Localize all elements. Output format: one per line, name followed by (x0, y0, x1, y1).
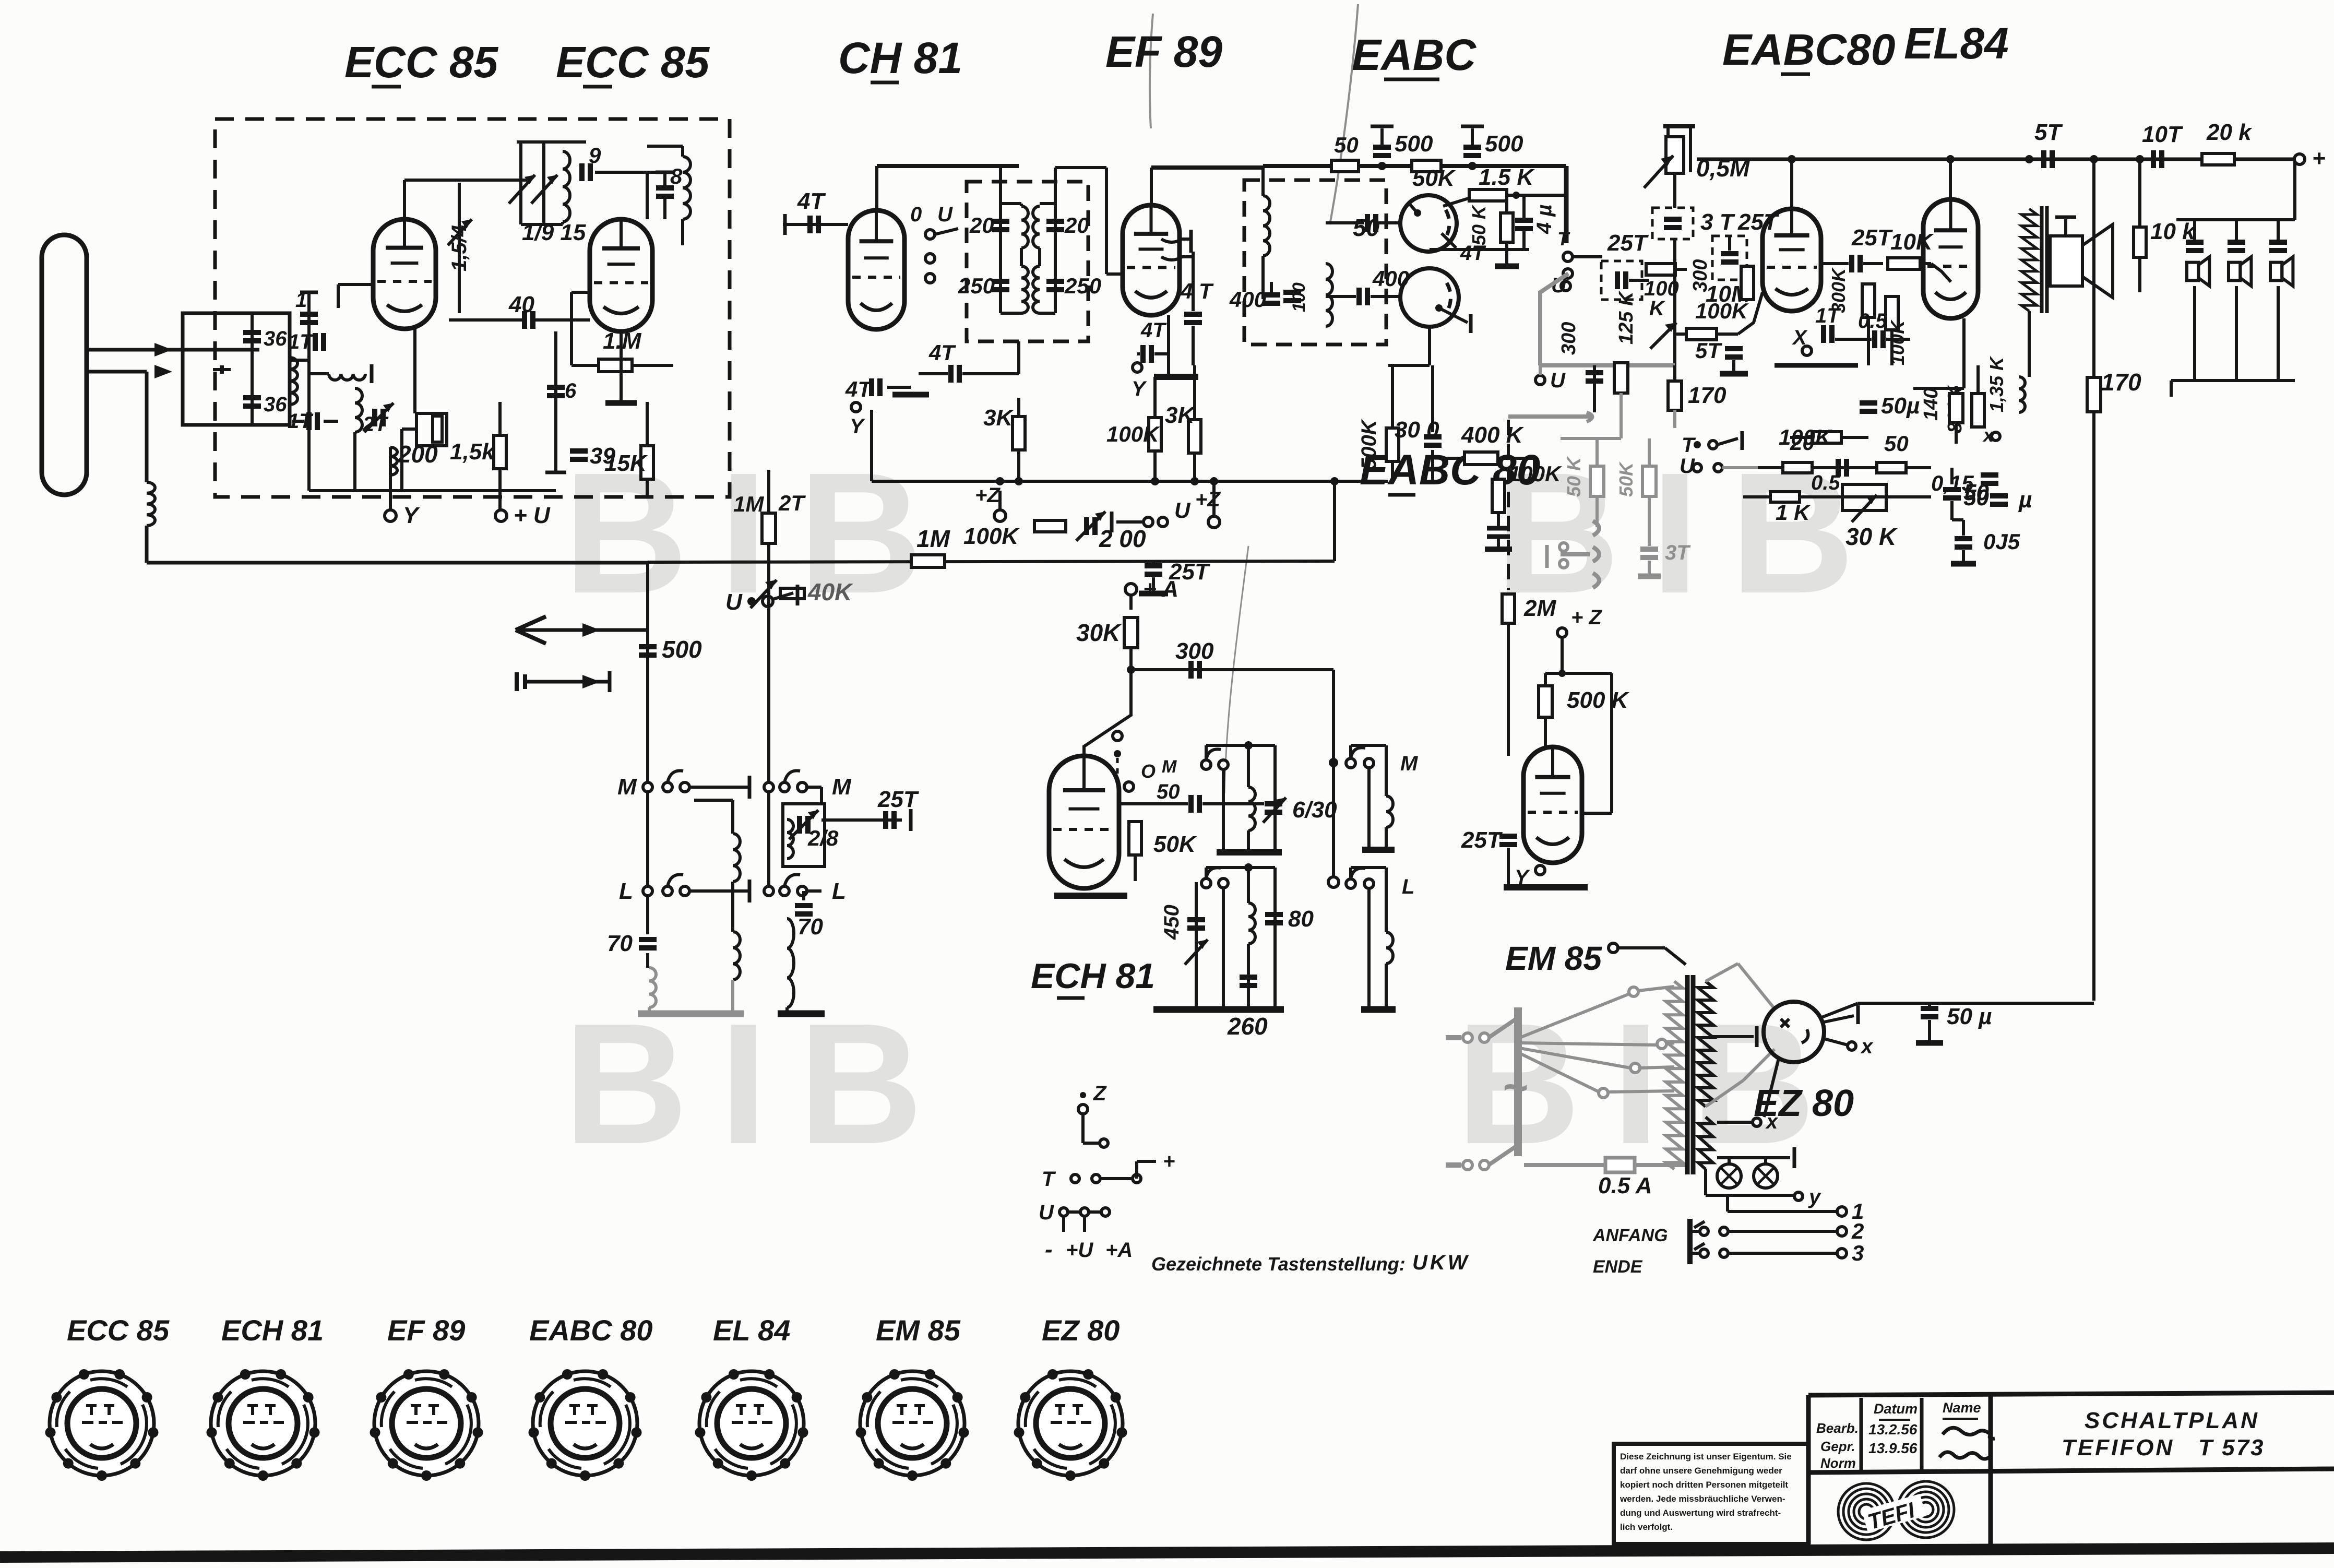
svg-text:ECH 81: ECH 81 (221, 1314, 324, 1347)
capacitor 0,15 low (1981, 472, 1998, 478)
coil below 2/8 (787, 819, 793, 859)
svg-text:500: 500 (1395, 131, 1433, 157)
svg-text:1T: 1T (1815, 304, 1841, 327)
group B top wire (1206, 866, 1275, 869)
coil to Y terminal (389, 447, 392, 491)
oscillator coil L6 (683, 157, 690, 219)
svg-text:100K: 100K (963, 524, 1020, 549)
circle O (1124, 782, 1134, 791)
svg-text:2M: 2M (1523, 596, 1556, 621)
tube V4 EF89 (1123, 205, 1180, 315)
capacitor 25T EM85 (1499, 834, 1517, 839)
resistor 40K (780, 588, 804, 599)
wire (353, 432, 356, 491)
capacitor 8 (656, 185, 674, 191)
resistor 1K (1770, 492, 1800, 502)
svg-text:500: 500 (1485, 131, 1523, 157)
capacitor 4T at V4 (1192, 252, 1195, 311)
svg-text:kopiert noch dritten Personen: kopiert noch dritten Personen mitgeteilt (1620, 1480, 1788, 1490)
svg-text:T: T (1557, 228, 1570, 250)
svg-text:25T: 25T (1737, 209, 1779, 235)
socket diagram EZ 80 (1018, 1371, 1123, 1476)
svg-text:6/30: 6/30 (1292, 797, 1337, 823)
svg-text:+: + (1163, 1150, 1175, 1173)
resistor 1M (911, 555, 945, 567)
scan crease top left of EF89 (1150, 14, 1153, 128)
svg-text:EL84: EL84 (1904, 19, 2009, 68)
resistor 100K lower (1812, 432, 1841, 443)
antenna dipole element (42, 235, 87, 495)
resistor 30K (1129, 595, 1133, 610)
group L coil (1385, 868, 1388, 932)
coil left mid upper (731, 800, 734, 834)
EM85 top terminal (1609, 943, 1618, 953)
svg-text:O: O (1141, 761, 1156, 782)
supply rail y318 left (877, 164, 1019, 168)
svg-text:M: M (617, 774, 637, 800)
svg-text:x: x (1860, 1035, 1874, 1058)
socket diagram EL 84 (699, 1371, 804, 1476)
svg-text:EZ 80: EZ 80 (1042, 1314, 1120, 1347)
capacitor 300 tone (1593, 365, 1596, 412)
disclaimer text box (1614, 1444, 1808, 1544)
svg-text:50: 50 (1884, 431, 1909, 456)
svg-text:25T: 25T (877, 787, 919, 812)
capacitor 300 series (1424, 434, 1442, 439)
svg-text:Z: Z (1093, 1082, 1107, 1105)
group B left vertical (1222, 888, 1225, 1006)
terminal U pair left (1561, 281, 1570, 291)
svg-text:13.9.56: 13.9.56 (1868, 1440, 1918, 1456)
title block outer top line (1808, 1393, 2334, 1395)
wire EZ80 to x heater (1764, 1059, 1779, 1117)
capacitor 4T at V3 cathode (869, 378, 874, 396)
resistor 300K (1741, 266, 1754, 300)
wire tone row 2 (1743, 495, 1931, 498)
group B coil (1247, 868, 1250, 903)
capacitor 1T at V5 (1821, 325, 1826, 343)
svg-text:T: T (1042, 1168, 1056, 1191)
terminal Y (385, 510, 396, 521)
resistor 2M (1502, 594, 1515, 623)
capacitor 25T dashed at rail (1712, 236, 1747, 280)
wire T2 prim top to rail (1021, 166, 1022, 204)
svg-text:EABC80: EABC80 (1722, 25, 1895, 74)
wire detector output down (1428, 327, 1431, 365)
resistor 1,35K (2019, 377, 2025, 412)
wire V1 grid left (338, 283, 373, 286)
svg-text:70: 70 (607, 931, 633, 956)
wire EZ80 cathode B+ (1820, 1003, 1858, 1018)
capacitor 1 (300, 312, 318, 317)
svg-text:+A: +A (1105, 1239, 1133, 1262)
capacitor 39 (570, 448, 588, 454)
resistor 170 right (2087, 377, 2101, 412)
svg-text:250: 250 (1064, 274, 1101, 298)
svg-text:70: 70 (797, 914, 823, 940)
antenna coil L1 (147, 482, 155, 526)
group M coil (1385, 745, 1388, 796)
svg-text:ANFANG: ANFANG (1592, 1226, 1668, 1245)
diode circle D1 (EABC80) (1400, 195, 1457, 252)
mains lower lead (1446, 1162, 1461, 1168)
svg-text:CH 81: CH 81 (838, 33, 962, 82)
capacitor 50/µ (1990, 493, 2008, 498)
capacitor 20 (T2 prim) (992, 219, 1009, 224)
svg-text:Datum: Datum (1874, 1401, 1918, 1417)
switch line 3 (1700, 1249, 1708, 1257)
svg-text:3: 3 (1852, 1241, 1864, 1265)
svg-text:4T: 4T (797, 188, 826, 214)
svg-text:4T: 4T (928, 340, 956, 365)
capacitor 500 bypass left (1373, 145, 1391, 150)
AF line wire y1075 (648, 561, 1335, 562)
svg-text:1,5/4: 1,5/4 (448, 225, 471, 271)
title block divider vertical (logo/title) (1988, 1395, 1993, 1544)
wire cathode down (413, 329, 416, 413)
socket diagram EM 85 (860, 1371, 964, 1476)
svg-text:100: 100 (1289, 282, 1309, 312)
V5 bottom bus (1775, 363, 1858, 368)
svg-text:T 573: T 573 (2198, 1435, 2265, 1460)
switch line 2 (1700, 1227, 1708, 1236)
svg-text:25T: 25T (1851, 225, 1893, 251)
svg-text:1.5 K: 1.5 K (1479, 164, 1535, 190)
V4 bottom bus (1154, 374, 1198, 380)
svg-text:4T: 4T (845, 377, 873, 401)
scan crease top middle (1330, 4, 1358, 224)
svg-text:+ U: + U (514, 503, 551, 528)
capacitor 4T below V4 (1140, 345, 1146, 363)
trimmer box 2T (767, 470, 770, 513)
group L bottom bar (1361, 1006, 1396, 1013)
svg-text:6: 6 (565, 379, 577, 402)
IF transformer T3 dashed box (1244, 180, 1386, 345)
svg-text:Name: Name (1943, 1400, 1981, 1416)
terminal U pair (1122, 514, 1123, 527)
title block header row dividers (1860, 1398, 1863, 1472)
resistor 100K (V4 screen) (1149, 418, 1161, 451)
socket diagram ECC 85 (50, 1371, 154, 1476)
wire V1 plate to tank (403, 180, 406, 219)
svg-text:10K: 10K (1890, 229, 1934, 255)
fuse 0.5A (1524, 1163, 1605, 1167)
socket diagram EF 89 (374, 1371, 479, 1476)
wire M row to 25T (821, 818, 902, 822)
tube V7 EM85 (1523, 747, 1582, 863)
wire grid loop bottom (309, 489, 556, 492)
capacitor 50 vert (1943, 487, 1961, 492)
svg-text:10 k: 10 k (2150, 219, 2196, 244)
wire D1 to 1.5K node (1443, 195, 1479, 206)
power transformer core (1685, 975, 1690, 1174)
svg-text:+: + (2312, 146, 2326, 171)
terminal + HT (2294, 154, 2305, 164)
power transformer secondary HT (1698, 981, 1713, 1107)
svg-text:500 K: 500 K (1567, 687, 1630, 713)
svg-text:30K: 30K (1076, 619, 1122, 646)
resistor 3K (V3) (1013, 417, 1025, 450)
speaker sub rail (2176, 218, 2295, 221)
svg-text:15K: 15K (604, 450, 648, 476)
EM85 feedback loop (1562, 672, 1612, 675)
svg-text:50 K: 50 K (1563, 456, 1585, 497)
trimmer 2T (372, 409, 377, 426)
svg-text:140: 140 (1920, 388, 1942, 421)
discriminator coil L4 (355, 388, 362, 432)
svg-text:~: ~ (1502, 1063, 1528, 1112)
svg-text:0.5: 0.5 (1811, 471, 1840, 494)
V4 screen lower tap (1161, 257, 1182, 260)
svg-text:L: L (832, 878, 846, 904)
svg-text:+Z: +Z (975, 484, 1001, 507)
potentiometer 30K (1842, 484, 1886, 510)
svg-text:y: y (1808, 1185, 1821, 1208)
svg-text:50K: 50K (1412, 165, 1456, 191)
trimmer 6/30 (1265, 801, 1282, 806)
svg-text:K: K (1649, 297, 1666, 320)
gray jack hooks (1508, 414, 1591, 419)
svg-text:ECC 85: ECC 85 (556, 38, 710, 87)
capacitor 9 (579, 163, 585, 181)
resistor 100K vert (1886, 296, 1898, 330)
wire V6 plate to rail (1949, 159, 1952, 199)
resistor 200 cathode (416, 413, 447, 446)
group A left vertical (1222, 769, 1225, 850)
coupling coil L2 (290, 358, 297, 405)
svg-text:20: 20 (1064, 213, 1089, 237)
coil left mid lower (731, 891, 734, 932)
resistor 50K gray 2 (1642, 466, 1656, 496)
capacitor 250 (T2 prim) (992, 279, 1009, 284)
svg-text:2/8: 2/8 (807, 826, 839, 850)
group M bottom bar (1362, 847, 1395, 853)
capacitor 70 right (802, 891, 805, 900)
tuner coil L5 (563, 151, 570, 222)
svg-text:+ Z: + Z (1571, 606, 1602, 629)
wire antenna upper lead (85, 348, 259, 352)
capacitor 70 on bus1 (639, 937, 657, 942)
capacitor 5T rail (2041, 150, 2046, 168)
capacitor 0,15 gnd (1955, 536, 1972, 541)
terminal x heater (1717, 1121, 1752, 1124)
svg-text:20: 20 (1790, 430, 1815, 455)
IF transformer T2 dashed box (967, 182, 1088, 341)
T3 primary coil (1263, 196, 1270, 256)
svg-text:40K: 40K (807, 578, 853, 605)
main HT rail top right (1697, 158, 2296, 161)
svg-text:50 K: 50 K (1468, 204, 1490, 245)
capacitor 50u cathode (1860, 400, 1877, 406)
T2 secondary coil (1033, 206, 1040, 248)
svg-text:3 T: 3 T (1700, 209, 1735, 235)
resistor 170 tone (1668, 381, 1682, 410)
socket diagram ECH 81 (211, 1371, 315, 1476)
resistor 100K agc (1034, 520, 1066, 532)
svg-text:EM 85: EM 85 (876, 1314, 961, 1347)
pot line down (1673, 173, 1676, 208)
svg-text:EL 84: EL 84 (713, 1314, 790, 1347)
coupling capacitor 25T V5-V6 (1849, 255, 1854, 272)
svg-text:+Z: +Z (1195, 488, 1221, 511)
rectifier connections fan (1706, 964, 1738, 981)
switch line 1 (1728, 1210, 1837, 1213)
wire V4 plate up and right (1150, 168, 1153, 205)
tube V8 ECH81 (1049, 756, 1119, 888)
tube V1 ECC85 triode a (373, 219, 436, 329)
resistor 1,5k (494, 435, 506, 469)
wire T2 sec top to EF89 grid (1054, 168, 1057, 204)
svg-text:U: U (1174, 498, 1191, 522)
svg-text:BIB: BIB (564, 987, 954, 1180)
svg-text:8: 8 (670, 164, 683, 188)
svg-text:Diese Zeichnung ist unser Eige: Diese Zeichnung ist unser Eigentum. Sie (1620, 1452, 1792, 1462)
svg-text:9: 9 (589, 143, 601, 168)
terminal U lower (1535, 375, 1545, 385)
wire antenna lower lead (85, 370, 147, 374)
svg-text:13.2.56: 13.2.56 (1868, 1421, 1918, 1438)
resistor 100K det (1492, 479, 1505, 513)
resistor 10K (1888, 258, 1920, 269)
wire tone row 1 (1758, 466, 1931, 469)
svg-text:1,35 K: 1,35 K (1986, 355, 2007, 412)
switch row L right half (780, 886, 789, 896)
wire HT vertical right (2092, 159, 2095, 377)
capacitor 36 upper (243, 330, 261, 335)
svg-text:L: L (619, 878, 633, 904)
mains switch gray (1488, 1019, 1516, 1038)
svg-text:50 µ: 50 µ (1947, 1004, 1992, 1029)
tube V3 ECH81 IF (848, 210, 904, 329)
svg-text:1,5k: 1,5k (450, 439, 496, 465)
capacitor 500 bypass right (1463, 145, 1481, 150)
svg-text:2: 2 (1851, 1219, 1864, 1243)
svg-text:500K: 500K (1357, 418, 1380, 470)
svg-text:0: 0 (910, 203, 922, 226)
capacitor 0.5 tone (1836, 459, 1841, 477)
capacitor 25T (883, 811, 888, 829)
trimmer 200 (1084, 517, 1089, 535)
svg-text:50: 50 (1334, 133, 1359, 157)
capacitor 500 on bus (639, 644, 657, 649)
switch row M right half (780, 782, 789, 792)
svg-text:Bearb.: Bearb. (1816, 1420, 1859, 1436)
ground bar right black (778, 1011, 825, 1017)
svg-text:170: 170 (2101, 369, 2141, 396)
gray wiring volume/tone area (1540, 274, 1568, 365)
svg-text:EM 85: EM 85 (1505, 940, 1602, 977)
band switch bus 1 vertical (646, 563, 649, 934)
capacitor 6 (554, 331, 557, 454)
svg-text:3T: 3T (1665, 541, 1691, 564)
resistor 15K (641, 446, 653, 479)
resistor 10k speaker (2134, 227, 2146, 257)
svg-text:M: M (1162, 757, 1177, 777)
input coupling box (183, 313, 290, 425)
svg-text:36: 36 (264, 327, 287, 350)
svg-text:80: 80 (1288, 906, 1314, 932)
band switch bus 2 vertical (767, 549, 770, 886)
group B bottom bus (1153, 1006, 1284, 1013)
resistor 100K pot input (1646, 264, 1675, 275)
group A hook contact (1201, 760, 1211, 769)
svg-text:25T: 25T (1607, 230, 1649, 256)
svg-text:20 k: 20 k (2206, 120, 2253, 145)
svg-text:darf ohne unsere Genehmigung w: darf ohne unsere Genehmigung weder (1620, 1466, 1782, 1476)
capacitor 400 (T3 sec) to D2 (1356, 288, 1362, 305)
ground bus gray (638, 1011, 744, 1017)
svg-text:500: 500 (662, 636, 702, 663)
title block signature scribbles (1943, 1428, 1995, 1439)
svg-text:125 K: 125 K (1615, 290, 1637, 345)
svg-text:EF 89: EF 89 (1105, 27, 1222, 76)
UKW tuner dashed enclosure (215, 119, 730, 497)
resistor 50K vertical right (1501, 213, 1513, 242)
capacitor 50 (T3) (1365, 214, 1370, 232)
terminal +A (1125, 584, 1137, 595)
V4 screen tap (1161, 239, 1182, 242)
wire pot to V5 grid (1675, 328, 1763, 329)
V8 bottom bus (1054, 893, 1127, 899)
volume potentiometer 0,5M (1663, 124, 1695, 128)
resistor 1M osc (762, 513, 776, 543)
resistor 50K osc grid (1129, 822, 1141, 855)
svg-text:2T: 2T (362, 413, 389, 436)
wire antenna return to band switch bus (145, 526, 149, 563)
svg-text:lich verfolgt.: lich verfolgt. (1620, 1522, 1673, 1532)
svg-text:ECC 85: ECC 85 (344, 38, 498, 87)
resistor 20 (1783, 462, 1812, 473)
terminal +U (495, 510, 507, 521)
terminal Y EM85 (1535, 865, 1545, 875)
svg-text:Gezeichnete Tastenstellung:: Gezeichnete Tastenstellung: (1151, 1253, 1406, 1275)
svg-text:20: 20 (969, 213, 994, 237)
ground V2 bottom (605, 400, 637, 406)
power transformer heater winding (1698, 1117, 1713, 1169)
dial lamps (1704, 1169, 1707, 1195)
capacitor 1T upper (313, 333, 318, 351)
resistor 50K on rail (1412, 160, 1441, 172)
svg-text:M: M (832, 774, 852, 800)
speaker small 2 (2235, 220, 2238, 240)
wire antenna down-lead to ground coil (145, 372, 149, 482)
grid network vertical wire (307, 292, 311, 491)
electrolytic 140 (1949, 394, 1963, 423)
capacitor 250 (T2 sec) (1046, 279, 1064, 284)
svg-text:50: 50 (1157, 780, 1180, 803)
scan crease middle (1224, 546, 1248, 793)
svg-text:U: U (1550, 369, 1566, 392)
diode circle D2 (EABC80) (1400, 268, 1459, 327)
bus1 bottom coil (649, 968, 656, 1007)
svg-text:EF 89: EF 89 (387, 1314, 465, 1347)
svg-text:UKW: UKW (1412, 1251, 1470, 1274)
capacitor 4T series to EF89 area (911, 365, 986, 366)
loudspeaker main (2050, 236, 2082, 286)
svg-text:50: 50 (1963, 480, 1989, 505)
svg-text:EABC 80: EABC 80 (529, 1314, 653, 1347)
terminal U osc (1113, 731, 1122, 741)
svg-text:4T: 4T (1140, 319, 1167, 342)
T2 primary coil (1021, 206, 1028, 248)
svg-text:ENDE: ENDE (1593, 1257, 1643, 1277)
TEFI logo text (1862, 1494, 1927, 1535)
wire 400K to AF line (1533, 458, 1536, 481)
svg-text:ECH 81: ECH 81 (1031, 956, 1155, 996)
capacitor electrolytic at detector (1515, 218, 1533, 223)
svg-text:5T: 5T (1695, 338, 1722, 363)
resistor 800K (1972, 394, 1984, 427)
